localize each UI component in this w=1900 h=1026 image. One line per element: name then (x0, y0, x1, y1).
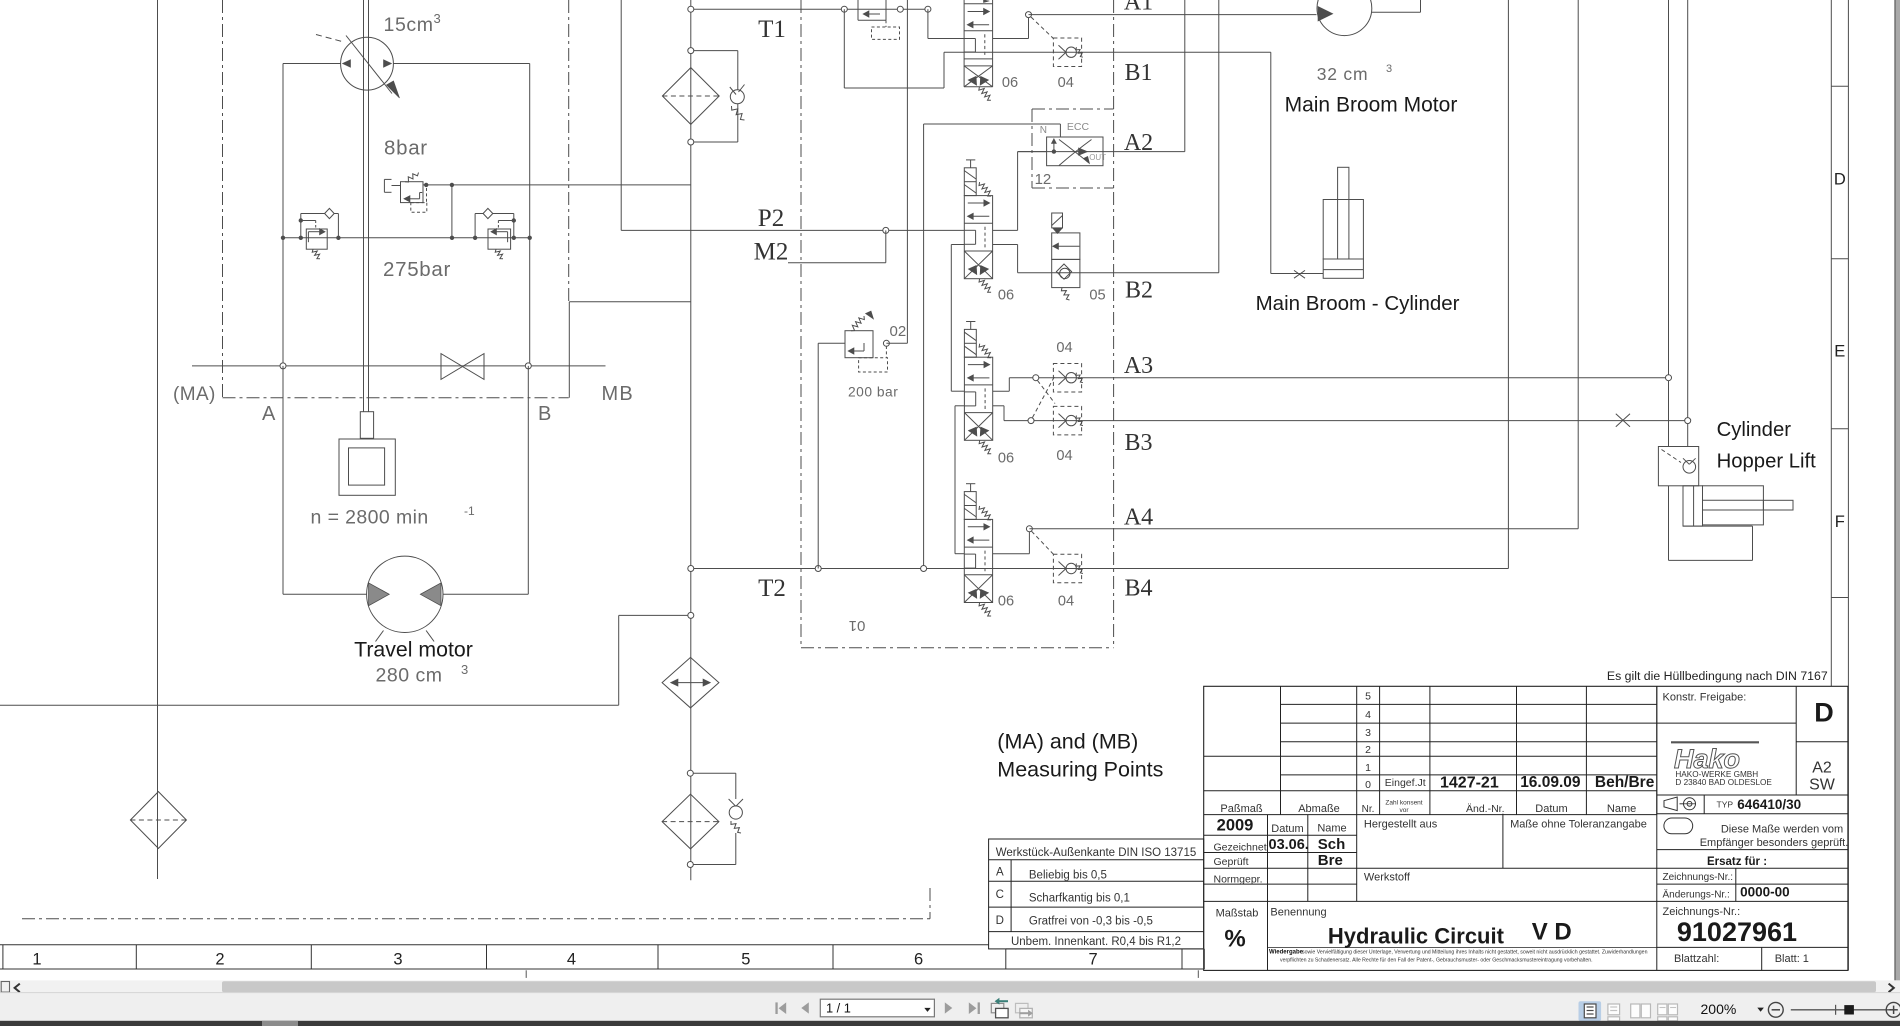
svg-text:Eingef.Jt: Eingef.Jt (1385, 777, 1426, 789)
svg-text:3: 3 (393, 951, 402, 969)
node T1 c (925, 6, 931, 12)
svg-text:MB: MB (602, 383, 634, 405)
svg-text:04: 04 (1058, 75, 1074, 91)
svg-text:Werkstück-Außenkante DIN ISO: Werkstück-Außenkante DIN ISO 13715 (996, 847, 1197, 859)
svg-text:1: 1 (32, 951, 41, 969)
svg-text:04: 04 (1058, 594, 1074, 610)
svg-text:01: 01 (849, 617, 866, 634)
check valve 04 on B1 (1053, 38, 1083, 67)
svg-text:%: % (1224, 926, 1245, 953)
wire pump loop left leg (282, 64, 284, 366)
node above pressure filter (687, 770, 693, 776)
svg-text:C: C (996, 889, 1004, 901)
filter bypass check valve (693, 51, 744, 142)
wire P2 riser x=621 (620, 0, 622, 230)
toolbar zoom-in button (1886, 1002, 1900, 1017)
svg-text:8bar: 8bar (384, 137, 428, 160)
wire broom motor right (1372, 0, 1421, 12)
svg-text:Gezeichnet: Gezeichnet (1214, 842, 1267, 854)
svg-text:Hopper Lift: Hopper Lift (1717, 451, 1817, 473)
svg-text:A2: A2 (1812, 760, 1832, 777)
toolbar first-page button (775, 1002, 786, 1014)
svg-text:Blatt: 1: Blatt: 1 (1775, 953, 1809, 965)
node T2 pilot drop (815, 566, 821, 572)
svg-text:Beliebig bis 0,5: Beliebig bis 0,5 (1029, 870, 1107, 882)
svg-text:280 cm: 280 cm (376, 665, 443, 687)
valve-block boundary dash-dot bottom (801, 647, 1114, 649)
svg-text:Es gilt die Hüllbedingung nach: Es gilt die Hüllbedingung nach DIN 7167 (1607, 669, 1828, 683)
svg-text:TYP: TYP (1717, 799, 1734, 809)
svg-text:Blattzahl:: Blattzahl: (1674, 953, 1719, 965)
shutoff valve (closed) (441, 354, 484, 380)
stadium tolerance symbol (1664, 818, 1693, 834)
svg-text:Unbem. Innenkant. R0,4 bis R1,: Unbem. Innenkant. R0,4 bis R1,2 (1011, 936, 1181, 948)
projection method symbol (1664, 797, 1696, 811)
svg-text:Hergestellt aus: Hergestellt aus (1364, 819, 1438, 831)
wire B3 line (1004, 420, 1688, 422)
svg-text:Wiedergabe: Wiedergabe (1269, 950, 1304, 956)
solenoid cartridge valve 05 on B2 (1052, 213, 1080, 300)
toolbar two-page layout button (1631, 1004, 1651, 1018)
svg-text:3: 3 (434, 11, 441, 26)
svg-text:n = 2800 min: n = 2800 min (311, 507, 429, 529)
main broom motor circle (1317, 0, 1372, 36)
svg-text:Normgepr.: Normgepr. (1214, 873, 1263, 885)
wire A4 line (1029, 0, 1578, 529)
horizontal scrollbar track (0, 980, 1900, 992)
svg-text:Benennung: Benennung (1270, 906, 1326, 918)
svg-text:B: B (538, 403, 551, 425)
wire 8bar valve to return riser (423, 184, 691, 186)
svg-text:3: 3 (1365, 727, 1371, 739)
label A2 SW (1809, 760, 1836, 794)
svg-text:6: 6 (914, 951, 923, 969)
svg-text:Hydraulic Circuit: Hydraulic Circuit (1328, 924, 1505, 949)
wire 02 pilot down to T2 (818, 343, 845, 568)
svg-text:F: F (1835, 513, 1845, 531)
toolbar zoom-out button (1768, 1002, 1783, 1017)
node T1 a (841, 6, 847, 12)
toolbar continuous layout button (1608, 1004, 1620, 1021)
werkstueck tolerance table (989, 839, 1204, 949)
node T1 b (897, 6, 903, 12)
pilot crossover dashed lines (1033, 376, 1056, 418)
toolbar page number box (820, 999, 934, 1017)
svg-text:7: 7 (1089, 951, 1098, 969)
svg-text:Main Broom Motor: Main Broom Motor (1285, 94, 1458, 117)
svg-text:15cm: 15cm (384, 14, 434, 36)
wire valve1 A port riser (993, 15, 1029, 39)
pilot check valve block hopper (1658, 447, 1698, 486)
svg-text:3: 3 (461, 662, 468, 677)
directional valve 3 (A3/B3) (964, 322, 992, 454)
svg-text:2: 2 (215, 951, 224, 969)
pressure filter bypass check valve (693, 773, 743, 864)
directional valve 4 (A4/B4) (964, 484, 992, 616)
wire valve2 left port down (951, 245, 964, 392)
svg-text:06: 06 (998, 451, 1014, 467)
svg-text:4: 4 (1365, 709, 1371, 721)
svg-text:Geprüft: Geprüft (1214, 856, 1249, 868)
wire T1 line (691, 8, 931, 10)
wire motor loop left leg (282, 366, 284, 594)
svg-text:06: 06 (998, 594, 1014, 610)
directional valve 1 (A1/B1) cut at top (964, 0, 993, 100)
wire supply to valve3 P (951, 390, 964, 392)
svg-text:05: 05 (1089, 288, 1105, 304)
scrollbar right arrow (1889, 984, 1894, 993)
svg-text:0000-00: 0000-00 (1740, 885, 1790, 900)
node filter top (688, 48, 694, 54)
svg-text:Beh/Bre: Beh/Bre (1595, 774, 1655, 791)
svg-text:Cylinder: Cylinder (1717, 419, 1792, 441)
wire B1 riser to cylinder (1271, 52, 1323, 273)
wire valve3 T down to valve4 (955, 406, 964, 554)
svg-text:Maßstab: Maßstab (1216, 908, 1259, 920)
svg-text:Datum: Datum (1535, 803, 1567, 815)
svg-text:B1: B1 (1124, 60, 1152, 86)
svg-text:(MA): (MA) (173, 384, 216, 405)
directional valve 2 (A2/B2) (964, 160, 992, 292)
toolbar single-page layout button selected (1579, 1001, 1602, 1021)
machine boundary dash-dot stub x=930 (929, 888, 931, 919)
svg-text:02: 02 (890, 323, 907, 340)
main broom cylinder (1323, 167, 1363, 278)
toolbar previous-view button (991, 998, 1008, 1018)
werkstueck table texts (996, 847, 1197, 948)
check valve 04 on A3 (1053, 364, 1083, 393)
node return riser link (688, 612, 694, 618)
ECC flow control block (1047, 137, 1103, 166)
vertical scrollbar right edge (1895, 0, 1900, 980)
wire P2 supply line (621, 229, 964, 231)
node filter bottom (688, 139, 694, 145)
valve-block boundary dash-dot vertical x=1114 (1113, 0, 1115, 648)
svg-text:D: D (996, 915, 1004, 927)
svg-text:B4: B4 (1124, 576, 1152, 602)
svg-text:-1: -1 (464, 504, 475, 518)
wire pump right port (393, 63, 529, 65)
svg-text:Main Broom - Cylinder: Main Broom - Cylinder (1256, 292, 1460, 315)
wire valve4 A out (993, 529, 1030, 554)
svg-text:1 / 1: 1 / 1 (826, 1001, 851, 1016)
horizontal scrollbar thumb (222, 981, 1876, 992)
revision header labels (1220, 800, 1636, 816)
svg-text:Maße ohne Toleranzangabe: Maße ohne Toleranzangabe (1510, 818, 1647, 830)
svg-text:A1: A1 (1124, 0, 1153, 16)
hopper cylinder drawing (1669, 486, 1794, 561)
toolbar next-view button (1016, 1003, 1033, 1017)
svg-text:0: 0 (1365, 779, 1371, 791)
svg-text:06: 06 (998, 288, 1014, 304)
drawing frame right outer line (1847, 0, 1849, 970)
svg-text:4: 4 (567, 951, 576, 969)
svg-text:1427-21: 1427-21 (1440, 775, 1499, 792)
svg-text:P2: P2 (758, 205, 784, 232)
node A3 pilot (1033, 375, 1039, 381)
svg-text:V D: V D (1532, 919, 1572, 946)
svg-text:91027961: 91027961 (1677, 917, 1797, 947)
svg-text:Werkstoff: Werkstoff (1364, 872, 1411, 884)
svg-text:3: 3 (1386, 63, 1392, 75)
svg-text:Abmaße: Abmaße (1298, 803, 1340, 815)
svg-text:SW: SW (1809, 777, 1836, 794)
svg-text:06: 06 (1002, 75, 1018, 91)
toolbar zoom slider (1791, 1005, 1891, 1015)
wire T1 drop to valve1 (928, 9, 964, 38)
svg-text:D 23840 BAD OLDESLOE: D 23840 BAD OLDESLOE (1675, 778, 1772, 787)
wire 8bar branch down to 275bar line (451, 185, 453, 238)
svg-text:Zeichnungs-Nr.:: Zeichnungs-Nr.: (1663, 906, 1741, 918)
machine boundary dash-dot bottom (22, 918, 930, 920)
node B (525, 363, 531, 369)
wire A2 line from ECC (1018, 0, 1185, 152)
svg-text:Paßmaß: Paßmaß (1220, 803, 1262, 815)
wire main A-B line (192, 365, 606, 367)
wire riser x=618.7 (618, 615, 620, 705)
wire A3 riser to top (1668, 0, 1670, 447)
valve-block boundary dash-dot vertical x=801 (800, 0, 802, 648)
svg-text:N: N (1040, 125, 1047, 136)
orifice on B3 line (1616, 414, 1630, 427)
svg-text:Scharfkantig bis 0,1: Scharfkantig bis 0,1 (1029, 893, 1130, 905)
svg-text:vor: vor (1399, 807, 1409, 814)
node A (280, 363, 286, 369)
ECC flow control dash-dot enclosure (1032, 109, 1114, 188)
node A4 (1026, 526, 1032, 532)
wire link to return riser (619, 614, 691, 616)
travel motor 280cm3 (367, 556, 443, 641)
svg-text:A: A (996, 867, 1004, 879)
revision numbers (1365, 691, 1371, 792)
svg-text:Datum: Datum (1271, 823, 1303, 835)
node T2 at return riser (688, 566, 694, 572)
wire B3 riser to top (1687, 0, 1689, 447)
suction filter diamond left (130, 792, 186, 849)
wire pump loop right leg (529, 64, 531, 366)
svg-text:Travel motor: Travel motor (354, 638, 473, 662)
svg-text:Name: Name (1317, 823, 1346, 835)
wire B2 riser to top (1218, 0, 1220, 273)
title block scale cell (1216, 901, 1327, 970)
svg-text:12: 12 (1035, 171, 1052, 188)
wire motor right (443, 593, 528, 595)
wire pump left port (283, 63, 341, 65)
svg-text:Empfänger besonders geprüft.: Empfänger besonders geprüft. (1700, 837, 1849, 849)
node 02 outlet (883, 340, 889, 346)
node T2 P-riser (921, 566, 927, 572)
svg-text:04: 04 (1056, 340, 1072, 356)
svg-text:A2: A2 (1124, 130, 1153, 156)
label TYP 646410/30 (1717, 797, 1802, 812)
svg-text:(MA) and (MB): (MA) and (MB) (997, 730, 1138, 754)
svg-text:Diese Maße werden vom: Diese Maße werden vom (1721, 823, 1843, 835)
ruler centering ticks (526, 970, 1198, 978)
scrollbar left arrow (15, 984, 20, 993)
scrollbar page icon (1, 982, 9, 993)
drawing sheet left border (157, 0, 159, 879)
wire valve3 B out (993, 406, 1004, 421)
svg-text:B3: B3 (1124, 430, 1152, 456)
svg-text:Zeichnungs-Nr.:: Zeichnungs-Nr.: (1663, 872, 1734, 883)
svg-text:Sch: Sch (1318, 836, 1346, 853)
wire MB link corner (569, 302, 691, 398)
svg-text:16.09.09: 16.09.09 (1520, 774, 1581, 791)
return filter diamond top (662, 68, 719, 125)
svg-text:D: D (1814, 698, 1834, 728)
svg-text:200%: 200% (1701, 1001, 1737, 1017)
toolbar two-page-continuous layout button (1658, 1004, 1678, 1021)
title block right section borders (1657, 686, 1848, 970)
wire A1 line to broom motor (1029, 14, 1317, 16)
pressure filter diamond bottom (662, 794, 719, 849)
check valve 04 on B4 (1053, 554, 1083, 583)
svg-text:5: 5 (741, 951, 750, 969)
wire T2/B4 line (691, 568, 1509, 570)
svg-text:200 bar: 200 bar (848, 385, 898, 400)
title block revision table (1204, 686, 1657, 814)
svg-text:Bre: Bre (1318, 852, 1343, 869)
svg-text:2009: 2009 (1217, 817, 1254, 835)
boundary dash-dot vertical x=568 (568, 0, 570, 302)
svg-text:Nr.: Nr. (1362, 804, 1375, 815)
svg-text:275bar: 275bar (383, 258, 451, 281)
svg-text:Gratfrei von -0,3 bis -0,5: Gratfrei von -0,3 bis -0,5 (1029, 916, 1153, 928)
flushing shuttle valve diamond (662, 657, 719, 708)
svg-text:2: 2 (1365, 744, 1371, 756)
node A3 end (1666, 375, 1672, 381)
svg-text:sowie Vervielfältigung dieser: sowie Vervielfältigung dieser Unterlage,… (1302, 950, 1648, 956)
svg-text:T2: T2 (758, 575, 786, 602)
relief valve 02 200bar (845, 311, 888, 372)
svg-text:E: E (1834, 343, 1845, 361)
frame row divider ticks (1831, 86, 1848, 597)
wire 02 up line (886, 0, 907, 343)
wire pilot from P2 up to ECC (924, 124, 1061, 569)
svg-text:Name: Name (1607, 803, 1636, 815)
wire long MA measuring line (0, 704, 619, 706)
svg-text:verpflichten zu Schadenersatz.: verpflichten zu Schadenersatz. Alle Rech… (1280, 958, 1593, 964)
legal small print (1268, 947, 1657, 963)
wire 275bar cross line (283, 237, 530, 239)
sheet ruler strip (0, 945, 1204, 969)
wire tank loop from valve1 (844, 9, 964, 88)
ruler numbers (32, 951, 1097, 969)
node B3 pilot (1028, 418, 1034, 424)
drawn-by table texts (1214, 817, 1438, 886)
wire A3 line (1009, 377, 1668, 379)
node below pressure filter (687, 862, 693, 868)
variable displacement pump 15cm3 (316, 35, 400, 99)
orifice on cylinder line (1294, 270, 1305, 278)
svg-text:646410/30: 646410/30 (1737, 797, 1801, 812)
wire B2 line (1018, 272, 1219, 274)
wire motor left (283, 593, 367, 595)
relief valve 275bar left with bypass check (301, 208, 339, 258)
node B3 end (1685, 418, 1691, 424)
toolbar next-page button (945, 1002, 953, 1013)
svg-text:A4: A4 (1124, 505, 1153, 531)
wire valve2 B out down to B2 (993, 245, 1018, 273)
MA-MB boundary dash-dot horizontal (223, 397, 569, 399)
svg-text:Measuring Points: Measuring Points (997, 758, 1163, 782)
svg-text:ECC: ECC (1067, 121, 1090, 133)
Hako logo (1671, 742, 1759, 774)
svg-text:Ersatz für :: Ersatz für : (1707, 856, 1767, 868)
svg-text:B2: B2 (1125, 278, 1153, 304)
drawing frame right inner line (1830, 0, 1832, 686)
node P2/M2 (883, 227, 889, 233)
wire B4 riser to top (1507, 0, 1509, 569)
window bottom dark strip (0, 1021, 1900, 1026)
title block drawn-by table (1204, 815, 1657, 902)
junction dots 8bar line (424, 183, 428, 187)
svg-text:Konstr. Freigabe:: Konstr. Freigabe: (1663, 692, 1747, 704)
svg-text:Änderungs-Nr.:: Änderungs-Nr.: (1663, 889, 1730, 901)
bottom toolbar background (0, 993, 1900, 1021)
wire valve2 A out to ECC (993, 152, 1047, 231)
svg-text:A: A (262, 403, 276, 425)
toolbar zoom dropdown caret (1757, 1008, 1764, 1012)
svg-text:T1: T1 (758, 16, 786, 43)
toolbar previous-page button (801, 1002, 809, 1013)
svg-text:OUT: OUT (1089, 153, 1106, 162)
revision row 0 entries (1385, 774, 1655, 792)
wire central return riser x=690.8 (690, 0, 692, 880)
wire valve3 A out (993, 378, 1010, 392)
relief valve 8bar (384, 173, 426, 213)
label Aenderungs-Nr (1663, 885, 1790, 901)
svg-text:M2: M2 (754, 239, 789, 266)
pilot dashed A1 to check (1031, 17, 1053, 39)
svg-text:D: D (1834, 171, 1846, 189)
wire B1 line (964, 51, 1271, 53)
node A1 (1026, 12, 1032, 18)
svg-text:04: 04 (1056, 448, 1072, 464)
svg-text:Änd.-Nr.: Änd.-Nr. (1466, 803, 1505, 815)
relief valve top (cut off) (858, 0, 900, 39)
check valve 04 on B3 (1053, 406, 1083, 435)
title block outer border (1204, 686, 1848, 970)
svg-text:1: 1 (1365, 762, 1371, 774)
wire M2 line (788, 230, 886, 262)
shaft coupling blocks (339, 412, 395, 496)
node T1 left (688, 6, 694, 12)
svg-text:Zahl konsent: Zahl konsent (1385, 800, 1422, 807)
svg-text:A3: A3 (1124, 353, 1153, 379)
svg-text:32 cm: 32 cm (1317, 64, 1369, 84)
relief valve 275bar right with bypass check (475, 208, 514, 258)
wire motor loop right leg (527, 366, 529, 594)
pilot dashed A4 to check (1032, 531, 1054, 554)
machine boundary dash-dot vertical x=222 (222, 0, 224, 398)
toolbar last-page button (969, 1002, 980, 1014)
pump drive shaft double line (363, 0, 365, 412)
svg-text:5: 5 (1365, 691, 1371, 703)
svg-text:03.06.: 03.06. (1269, 837, 1309, 853)
